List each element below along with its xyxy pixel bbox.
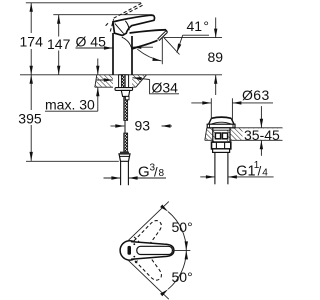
svg-text:G1: G1 <box>236 163 255 179</box>
svg-text:174: 174 <box>20 34 44 50</box>
svg-text:50°: 50° <box>172 219 193 235</box>
svg-text:41°: 41° <box>187 18 209 34</box>
svg-text:G: G <box>138 164 150 181</box>
svg-text:/: / <box>154 165 158 180</box>
svg-text:147: 147 <box>47 36 71 52</box>
svg-text:Ø 45: Ø 45 <box>76 34 107 50</box>
svg-text:4: 4 <box>262 167 268 178</box>
svg-text:Ø34: Ø34 <box>152 79 179 95</box>
svg-text:Ø63: Ø63 <box>242 87 270 103</box>
svg-text:max. 30: max. 30 <box>45 97 95 113</box>
svg-text:8: 8 <box>159 168 165 179</box>
svg-text:395: 395 <box>18 110 42 126</box>
svg-text:35-45: 35-45 <box>244 127 280 143</box>
svg-text:93: 93 <box>135 118 151 134</box>
svg-text:/: / <box>258 163 262 178</box>
svg-text:89: 89 <box>208 49 224 65</box>
svg-text:50°: 50° <box>172 269 193 285</box>
